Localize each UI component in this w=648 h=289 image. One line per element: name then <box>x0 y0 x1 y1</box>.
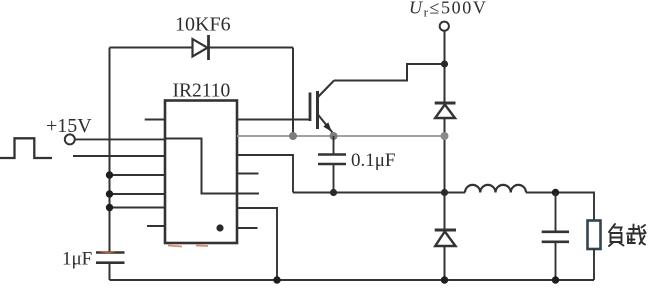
node gray junction emitter <box>330 132 338 140</box>
IC left pin 5 <box>110 193 166 195</box>
IC right pin stub 7 <box>237 227 258 229</box>
node ground junction cap <box>552 276 559 283</box>
capacitor C3 output filter <box>555 193 557 232</box>
svg-text:IR2110: IR2110 <box>173 81 231 102</box>
IC right pin gate wire <box>237 119 310 121</box>
IC left pin 6 <box>110 207 166 209</box>
resistor RL load box <box>588 221 601 250</box>
wire bottom ground rail <box>110 279 595 281</box>
IC left pin 7 <box>147 225 165 227</box>
node rail switch junction <box>441 189 448 196</box>
scan artifact orange smudge under IC <box>168 246 208 247</box>
capacitor C2 0.1uF <box>333 136 335 155</box>
wire inductor to load <box>526 193 594 221</box>
wire bootstrap right vertical <box>292 48 294 137</box>
wire switch node horizontal <box>293 192 465 194</box>
transistor Q1 IGBT body bar <box>316 91 319 129</box>
node gray junction bootstrap <box>289 132 297 140</box>
wire Vcc bus vertical <box>109 48 111 253</box>
input pulse waveform <box>0 138 52 158</box>
node filter cap junction <box>552 189 559 196</box>
IC left pin 1 <box>145 119 165 121</box>
node bus junction 3 <box>106 204 113 211</box>
transistor Q1 IGBT gate bar <box>309 93 312 122</box>
label load (Chinese fuzai) <box>609 224 646 246</box>
svg-text:0.1μF: 0.1μF <box>351 150 396 171</box>
diode D3 lower freewheel <box>435 230 456 246</box>
capacitor C1 1uF <box>96 253 125 263</box>
node ground junction COM <box>273 276 280 283</box>
wire input signal to IC pin <box>73 155 165 157</box>
op-amp U1 IR2110 IC box <box>165 101 237 244</box>
wire main rail vertical <box>444 31 446 280</box>
node bus junction 2 <box>106 190 113 197</box>
IC left pin 4 <box>110 174 166 176</box>
node bus junction 1 <box>106 171 113 178</box>
terminal Ur supply <box>440 22 449 31</box>
diode D1 10KF6 <box>193 35 209 60</box>
wire bootstrap top horizontal <box>110 47 294 49</box>
svg-text:1μF: 1μF <box>62 249 92 270</box>
node cap C2 bottom junction <box>330 189 337 196</box>
wire +15V terminal to IC pin <box>75 138 165 140</box>
wire VB emitter rail (gray) <box>237 135 445 137</box>
node emitter-rail gray junction <box>441 132 449 140</box>
svg-text:Ur≤500V: Ur≤500V <box>409 0 487 20</box>
IC internal dot <box>216 224 223 231</box>
IC internal divider line <box>165 139 259 194</box>
IC right pin stub 4 <box>237 173 259 175</box>
transistor Q1 emitter lead with arrow <box>318 114 335 135</box>
IC right pin COM wire <box>237 208 277 280</box>
node collector junction <box>441 60 448 67</box>
transistor Q1 collector lead <box>318 81 335 98</box>
diode D2 upper freewheel <box>435 103 456 118</box>
glyph fu <box>609 224 622 232</box>
IC right pin Vs wire <box>237 155 293 193</box>
glyph zai <box>629 225 638 233</box>
wire collector to rail <box>334 64 445 81</box>
svg-text:10KF6: 10KF6 <box>175 14 231 36</box>
inductor L1 <box>465 185 526 193</box>
scan artifact orange marks on C1 <box>100 252 115 253</box>
terminal +15V <box>65 134 75 144</box>
node ground junction rail <box>441 276 448 283</box>
